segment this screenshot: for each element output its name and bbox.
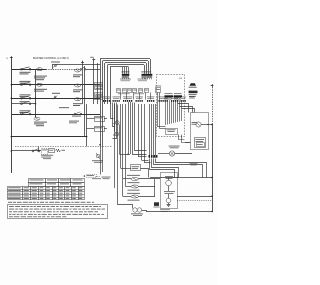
wire: DSI left pair down [157, 93, 159, 128]
wire: right rail N (dashed top) [212, 87, 214, 125]
relay: dashed aux contact right of table [84, 175, 85, 176]
wire: mid switch links [87, 118, 94, 120]
element: bake element [131, 178, 139, 181]
relay coil: double line break relay [37, 68, 43, 71]
wire bus: DSI internal wires [165, 100, 167, 125]
text: labels below connector P1 [120, 78, 131, 81]
wire: ignitor to rail [201, 124, 212, 126]
wire bus: right harness bundle [138, 104, 140, 157]
motor: convection fan motor [133, 208, 137, 212]
table: relay contacts chart header [29, 179, 85, 187]
sensor: oven temp sensor box [131, 165, 141, 171]
text: labels below connector P2 [138, 78, 148, 81]
contact: rung 1 feeder contact [80, 68, 82, 70]
svg-text:DSI: DSI [179, 78, 183, 80]
wire: rung 5 [11, 114, 100, 116]
ground: lock motor ground [168, 203, 170, 205]
terminal: L1 cross [10, 57, 13, 59]
wire: stack right returns [141, 169, 149, 178]
connector: DSI aux connector [156, 88, 161, 93]
element: convection element [131, 195, 139, 198]
wire: connector A pin stubs [122, 78, 124, 80]
lamp: oven lamp 1 [115, 121, 119, 125]
switch: bake relay contact [21, 84, 23, 86]
wire: distribution wrap 2 [154, 159, 203, 178]
wire: vertical feeder pair B [93, 61, 95, 104]
wire: TOD feed [185, 142, 190, 144]
wire: conv element feed [122, 179, 124, 197]
wire: subcircuit links [168, 178, 170, 181]
relay coil: bake element relay [37, 83, 43, 86]
jack: meat probe jack [96, 154, 100, 158]
wire: rung 4 short [11, 103, 35, 105]
relay: latch relay boxes [42, 149, 48, 155]
wire: long line y177.5 to right rail [150, 177, 212, 179]
wire: long rung y136.6 [11, 136, 86, 138]
relay coil: rung 5 branch coil [35, 114, 37, 117]
switch: latch switch [21, 97, 23, 99]
connector: bundle end pins [149, 155, 151, 158]
wire: lamp bottom link [119, 154, 130, 156]
resistor: series resistor [56, 149, 61, 152]
text block: wiring notes box [8, 205, 108, 219]
wire: bottom line y211.5 [146, 211, 212, 213]
module DSI: dashed enclosure [157, 75, 185, 137]
wire: distribution wrap 4 [150, 159, 175, 178]
wire: vertical pair to mid section [84, 104, 86, 137]
switch: meat probe switch mid [95, 127, 105, 132]
load: convection fan right [75, 98, 81, 101]
element: broil element [131, 185, 139, 188]
lamp: oven lamp 2 [115, 132, 119, 136]
wire: dashed lock to rail [177, 200, 212, 202]
switch: door switch right [54, 96, 56, 98]
wire: rung to latch relay y151 [11, 150, 41, 152]
wire: bundle inner hooks [139, 156, 147, 158]
relay contacts column right of ladder [95, 83, 103, 86]
wire: L1 left rail [11, 56, 13, 173]
terminal: feeder A cross [81, 62, 84, 64]
text: latch relay labels [41, 154, 53, 157]
module: TOD clock box [195, 138, 206, 148]
wire: relay hook from dashed line [38, 146, 40, 151]
svg-text:MASTER CONTROL (L1 ONLY): MASTER CONTROL (L1 ONLY) [33, 56, 69, 60]
wire: rung 2 [11, 84, 100, 86]
wire: dashed link to probe jack [15, 146, 112, 148]
wire: rung 1 [11, 69, 46, 71]
terminal: N supply cross [211, 85, 214, 87]
wire: pair turning right [133, 103, 147, 155]
wire: DSI wires exiting below [179, 135, 185, 140]
transformer: spark module stack [190, 83, 197, 85]
connector row: wiring harness plugs [103, 100, 104, 102]
relay: door lock relay [166, 180, 172, 186]
terminal: feeder B cross [92, 59, 95, 61]
wire: distribution wrap 1 [156, 159, 207, 178]
wire: vertical feeder pair A [82, 64, 84, 105]
connector: DSI plug 2 [174, 95, 182, 97]
lamp: oven light right [169, 151, 174, 156]
wire: rung 3 [11, 98, 100, 100]
switch: double line break relay contact [21, 68, 23, 70]
load: top element right [75, 69, 81, 72]
connector: DSI plug 1 [165, 95, 174, 97]
ignitor module: DSI bottom box [166, 129, 178, 135]
text: note line [8, 202, 12, 203]
table: relay contacts chart body [8, 187, 85, 200]
wire: stubs into connector P1 [122, 67, 124, 74]
switch: latch relay contact [32, 150, 34, 152]
wire bus: nested top lines [100, 58, 150, 60]
switch: oven thermostat contact [55, 65, 57, 67]
text: label near lock bottom [160, 208, 170, 211]
connector P2 control board [142, 74, 153, 76]
module: clock assembly outline [191, 113, 209, 150]
wire: rung 1 upper branch [52, 64, 54, 69]
contact: rung 5 right marks [74, 113, 76, 115]
component row: board relays [117, 89, 121, 93]
motor: lock motor [166, 198, 171, 203]
wire bus: stack feeders [114, 104, 116, 188]
load: broil element right [75, 84, 81, 87]
connector P1 control board [122, 74, 130, 76]
text: label on distribution lines [190, 162, 198, 165]
wire bus: short hook drops [111, 103, 114, 119]
wire: probe vertical drops [100, 145, 102, 175]
wire: distribution wrap 3 [152, 159, 179, 178]
wire: ladder mid rail [35, 69, 37, 117]
wire: DSI hooks exiting right [178, 104, 189, 113]
component: interlock dark blob [154, 202, 159, 206]
wire: light connections [158, 153, 169, 155]
ignitor: oven ignitor [196, 122, 201, 127]
module: door lock assembly outline [161, 173, 178, 209]
wire: lamp feed pair [128, 102, 130, 154]
switch: lock switch [21, 103, 23, 105]
text: mid section labels [59, 106, 69, 109]
switch: oven selector contact [21, 113, 23, 115]
text: lock switch label [164, 190, 175, 193]
switch: oven door switch mid [95, 117, 105, 122]
wire: board column drops to row B [120, 93, 122, 100]
